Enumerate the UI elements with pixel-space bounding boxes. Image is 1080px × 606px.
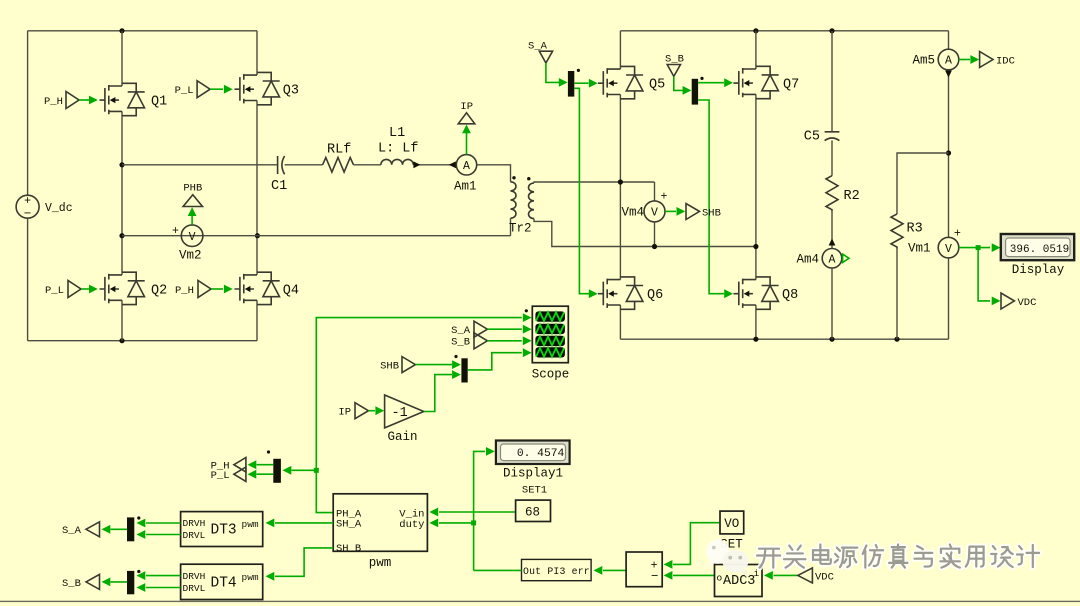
svg-text:Q3: Q3 [283, 84, 299, 99]
bottom window border line [0, 601, 1080, 602]
svg-text:RLf: RLf [327, 143, 351, 158]
label block VO [720, 511, 744, 534]
wire: VO to sum plus [664, 523, 720, 569]
wire: Am1 to transformer primary [477, 165, 511, 182]
wire: S_B drive down to Q8 gate [698, 100, 733, 298]
port P_L to Q2 [45, 281, 98, 298]
node: top junction C5 branch [829, 28, 834, 33]
resistor R3 [891, 214, 931, 339]
gate drive bar for Q5 [568, 69, 598, 97]
svg-text:DT4: DT4 [211, 575, 237, 591]
port P_L to Q3 [175, 81, 233, 98]
transistor Q8 [733, 277, 798, 309]
resistor R2 [826, 140, 860, 248]
svg-text:DRVL: DRVL [183, 583, 206, 594]
wire: leg A rail segments [121, 31, 123, 341]
voltmeter Vm2 [172, 225, 203, 263]
svg-text:+: + [172, 225, 179, 238]
svg-text:Am4: Am4 [796, 253, 819, 267]
svg-text:Q7: Q7 [783, 78, 799, 93]
node: leg B lower junction [255, 233, 260, 238]
svg-text:DT3: DT3 [211, 523, 237, 539]
svg-text:P_L: P_L [45, 285, 64, 297]
wires: DT3 outputs to S_A bar [137, 519, 181, 539]
wire: SH_B to DT4 [266, 548, 334, 581]
wire: VDC into ADC3 [764, 571, 798, 580]
port S_A top with gate drive bar [528, 41, 568, 87]
wire: secondary bottom return [534, 219, 756, 247]
probe IDC from Am5 [959, 52, 1015, 68]
svg-text:pwm: pwm [369, 556, 392, 570]
wire: left source rail lower [27, 218, 29, 341]
gate bar S_B out [102, 570, 141, 594]
PI controller block Out PI3 err [474, 559, 591, 580]
node: bottom junction leg D [753, 337, 758, 342]
node: leg D mid junction [753, 244, 758, 249]
svg-text:C1: C1 [271, 179, 287, 194]
svg-text:396. 0519: 396. 0519 [1010, 244, 1069, 256]
svg-text:A: A [829, 254, 836, 267]
svg-text:Q5: Q5 [649, 78, 665, 93]
wire: ADC3 to sum minus [664, 571, 715, 580]
svg-text:Vm2: Vm2 [179, 249, 202, 263]
constant block SET1 value 68 [516, 485, 551, 522]
svg-text:P_L: P_L [211, 470, 230, 482]
probe PHB above Vm2 [183, 183, 202, 225]
wires: DT4 outputs to S_B bar [137, 571, 181, 592]
wire: C1 to RLf [285, 164, 323, 166]
svg-text:S_B: S_B [451, 337, 470, 349]
transistor Q7 [733, 66, 799, 98]
capacitor C5 [804, 31, 840, 145]
svg-text:Q8: Q8 [782, 288, 798, 303]
inductor L1 [378, 126, 419, 165]
svg-text:Gain: Gain [387, 430, 417, 444]
wire: right bridge bottom rail [620, 338, 948, 340]
port S_A to scope [451, 321, 532, 337]
node: bottom junction leg A [119, 338, 124, 343]
svg-text:Tr2: Tr2 [509, 222, 532, 236]
ADC block ADC3 [715, 565, 763, 597]
transistor Q4 [235, 272, 300, 304]
svg-text:PHB: PHB [183, 183, 202, 195]
svg-text:C5: C5 [804, 130, 820, 145]
ports P_H P_L feedback [211, 458, 246, 482]
svg-text:Q6: Q6 [647, 288, 663, 303]
driver block DT3 [181, 512, 263, 547]
probe IP above Am1 [458, 101, 475, 155]
node: leg A lower junction [119, 233, 124, 238]
wire: secondary top to Vm4 node [534, 182, 655, 183]
svg-text:S_B: S_B [62, 578, 81, 590]
svg-text:V: V [651, 207, 658, 220]
node: bottom junction R3 branch [894, 337, 899, 342]
node: leg C mid junction [618, 179, 623, 184]
summing block [626, 552, 662, 587]
svg-text:L1: L1 [389, 126, 405, 141]
svg-text:-1: -1 [392, 406, 408, 421]
svg-text:A: A [945, 55, 952, 68]
svg-text:R2: R2 [844, 189, 860, 204]
transistor Q5 [598, 66, 665, 98]
transistor Q2 [100, 272, 168, 304]
svg-text:SHB: SHB [380, 361, 399, 373]
gate bar for P_H P_L [248, 450, 317, 482]
svg-text:Q2: Q2 [151, 284, 167, 299]
ammeter Am1 [454, 155, 477, 194]
port S_A bottom output [62, 522, 100, 537]
node: R3 branch junction [946, 150, 951, 155]
svg-text:DRVH: DRVH [183, 518, 206, 529]
wire: V_in from SET1 68 [429, 508, 515, 517]
node: top junction leg D [753, 28, 758, 33]
wire: leg A mid output [122, 164, 277, 166]
svg-text:Q1: Q1 [151, 95, 167, 110]
wire: SH_A to DT3 [266, 519, 334, 528]
svg-text:V_dc: V_dc [45, 202, 73, 215]
port S_B bottom output [62, 574, 100, 589]
wire: leg B rail segments [256, 31, 258, 341]
svg-text:A: A [463, 160, 470, 173]
node: leg A mid junction [119, 162, 124, 167]
wire: S_A drive down to Q6 gate [574, 88, 597, 298]
svg-text:pwm: pwm [242, 572, 259, 583]
svg-text:ADC3: ADC3 [723, 574, 755, 589]
voltage source V_dc [16, 195, 73, 221]
svg-text:o: o [717, 573, 723, 584]
ammeter Am4 [796, 239, 849, 340]
transformer Tr2 secondary winding [527, 177, 534, 219]
svg-text:S_A: S_A [62, 525, 82, 537]
node: trunk junction to P bar [314, 468, 319, 473]
gain block -1 [385, 370, 461, 444]
svg-text:pwm: pwm [242, 519, 259, 530]
port IP into Gain [338, 403, 384, 419]
svg-text:DRVH: DRVH [183, 571, 206, 582]
port VDC input [798, 568, 834, 583]
svg-text:+: + [954, 228, 961, 241]
mux bar for scope channel 4 [454, 348, 531, 382]
svg-text:Vm4: Vm4 [621, 206, 644, 220]
svg-text:Display: Display [1012, 263, 1065, 277]
wire: Vm1 output to Display [959, 243, 1001, 252]
transistor Q1 [100, 83, 168, 115]
svg-text:L: Lf: L: Lf [378, 142, 419, 157]
svg-text:Scope: Scope [532, 368, 570, 382]
svg-text:0. 4574: 0. 4574 [517, 448, 565, 460]
svg-text:Q4: Q4 [283, 284, 299, 299]
capacitor C1 [271, 156, 287, 194]
svg-text:VO: VO [724, 517, 739, 531]
driver block DT4 [181, 564, 263, 599]
node: bottom junction C5 branch [829, 337, 834, 342]
display Display1 showing 0.4574 [496, 441, 570, 481]
wire: leg D rail segments [755, 31, 757, 339]
transformer Tr2 primary winding [509, 176, 532, 236]
node: top-left junction [119, 28, 124, 33]
probe SHB from Vm4 [665, 204, 721, 220]
svg-text:IP: IP [338, 407, 351, 419]
port SHB into mux bar [380, 357, 461, 373]
svg-text:68: 68 [525, 506, 540, 520]
svg-text:P_H: P_H [44, 96, 63, 108]
svg-text:SH_A: SH_A [336, 519, 362, 531]
svg-text:SET1: SET1 [522, 485, 547, 497]
scope block [525, 306, 570, 381]
wire: right bridge top rail [620, 30, 948, 32]
svg-text:IDC: IDC [996, 55, 1015, 67]
wire: left bridge bottom rail [28, 340, 257, 342]
label SET above ADC3 [720, 538, 743, 552]
svg-text:duty: duty [399, 519, 424, 531]
wire: PH_A trunk [316, 313, 531, 512]
svg-text:P_H: P_H [175, 285, 194, 297]
ammeter Am5 [912, 49, 958, 237]
svg-text:R3: R3 [907, 222, 923, 237]
wire: sum to PI3 [594, 566, 627, 575]
voltmeter Vm4 [621, 182, 667, 249]
svg-text:VDC: VDC [815, 571, 834, 583]
wire: RLf to L1 [354, 164, 381, 166]
svg-text:Am1: Am1 [454, 180, 477, 194]
port S_B top with gate drive bar [665, 54, 691, 95]
wire: left bridge top rail [28, 30, 257, 32]
svg-text:P_L: P_L [175, 85, 194, 97]
transistor Q6 [598, 277, 663, 309]
wire: L1 to Am1 with direction arrow [413, 161, 456, 168]
svg-text:Display1: Display1 [503, 466, 563, 480]
svg-text:+: + [24, 195, 31, 208]
svg-text:VDC: VDC [1018, 297, 1037, 309]
watermark wechat icon [706, 539, 749, 577]
port P_H to Q1 [44, 92, 98, 109]
svg-text:S_A: S_A [451, 325, 471, 337]
wire: R3 branch top [897, 153, 949, 214]
port S_B to scope [451, 333, 532, 349]
wire: lower bridge output through Vm2 [122, 235, 511, 237]
probe VDC output [978, 248, 1036, 309]
gate drive bar for Q7 [692, 77, 733, 105]
svg-text:DRVL: DRVL [183, 530, 206, 541]
svg-text:SH_B: SH_B [336, 543, 361, 555]
svg-text:−: − [651, 570, 659, 584]
svg-text:+: + [661, 191, 668, 204]
wire: duty trunk vertical [474, 447, 495, 570]
gate bar S_A out [102, 516, 141, 541]
svg-text:V: V [189, 231, 196, 244]
voltmeter Vm1 [938, 228, 961, 340]
port P_H to Q4 [175, 281, 233, 298]
svg-text:V: V [945, 243, 952, 256]
svg-text:Am5: Am5 [912, 54, 935, 68]
watermark text 开关电源仿真与实用设计 [757, 545, 1039, 568]
transistor Q3 [235, 72, 300, 104]
wire: leg C rail segments [619, 31, 621, 339]
wire: left source rail upper [27, 31, 29, 195]
pwm control block [333, 494, 427, 570]
svg-text:Out PI3 err: Out PI3 err [523, 566, 590, 577]
wire: duty from trunk [429, 519, 476, 528]
svg-text:SHB: SHB [702, 207, 721, 219]
display Display showing 396.0519 [1001, 234, 1074, 277]
svg-text:Vm1: Vm1 [908, 242, 931, 256]
svg-text:IP: IP [460, 101, 473, 113]
resistor RLf [323, 143, 354, 173]
wire: Am5 branch top corner [948, 31, 950, 49]
